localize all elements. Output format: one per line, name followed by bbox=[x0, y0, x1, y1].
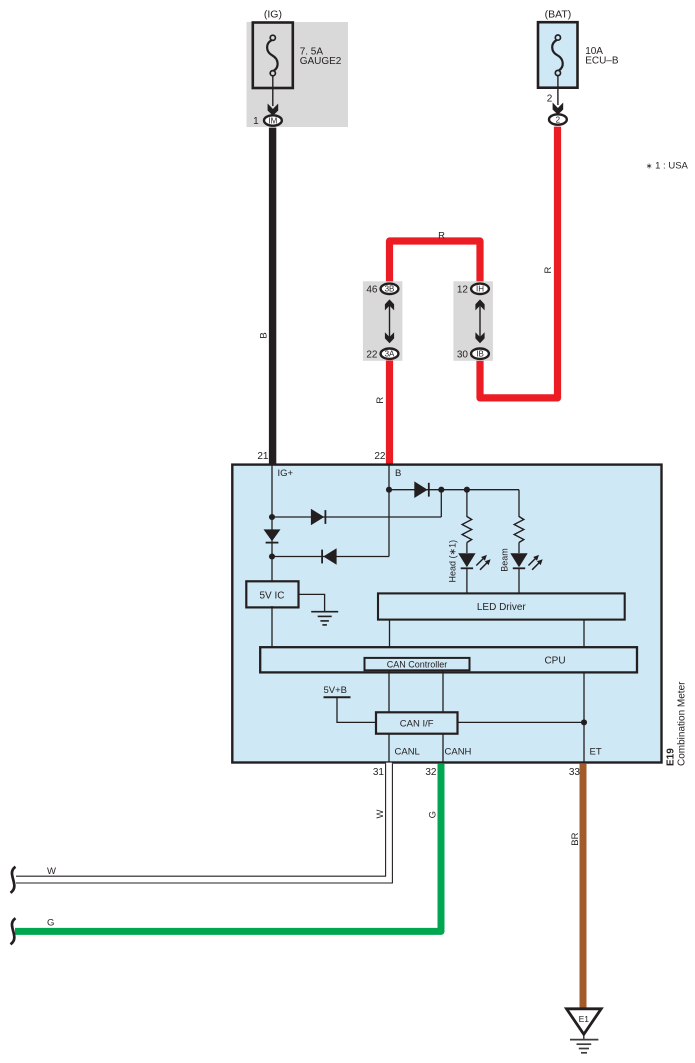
connector oval 2 bbox=[549, 114, 567, 124]
pin 12 label bbox=[457, 285, 469, 296]
connector oval 3A bbox=[381, 349, 399, 359]
wire resistor to LED bbox=[466, 543, 468, 554]
svg-text:B: B bbox=[395, 468, 401, 479]
node junction B line bbox=[386, 487, 392, 493]
note *1 : USA bbox=[646, 161, 689, 172]
value label 7.5A GAUGE2 bbox=[300, 47, 342, 68]
svg-text:5V+B: 5V+B bbox=[324, 685, 348, 696]
svg-text:IH: IH bbox=[476, 285, 484, 294]
ground E1 bbox=[567, 1009, 602, 1053]
svg-text:32: 32 bbox=[425, 767, 437, 778]
wire R (red) 3A to pin 22 of meter bbox=[386, 361, 393, 466]
svg-text:3B: 3B bbox=[385, 285, 395, 294]
CAN I/F box U6 bbox=[376, 712, 458, 733]
svg-text:21: 21 bbox=[257, 451, 269, 462]
diode D2 (IG+ line, pointing right) bbox=[311, 509, 326, 526]
pin 21 label bbox=[257, 451, 269, 462]
CPU box U4 bbox=[260, 647, 637, 672]
arrow into IM bbox=[268, 104, 279, 116]
wire beam branch vertical bbox=[518, 490, 520, 517]
break squiggle W bbox=[11, 867, 16, 893]
wire R (red) from connector 2 down, left, up to IB bbox=[480, 127, 558, 398]
wire 5VIC down to CPU bbox=[271, 606, 273, 649]
value label 10A ECU-B bbox=[585, 46, 619, 67]
pin 30 label bbox=[457, 349, 469, 360]
svg-text:ECU–B: ECU–B bbox=[585, 56, 619, 67]
pass-through gray box IH/IB bbox=[453, 281, 493, 361]
svg-text:(BAT): (BAT) bbox=[545, 9, 572, 21]
svg-text:12: 12 bbox=[457, 285, 469, 296]
svg-text:IB: IB bbox=[476, 350, 484, 359]
svg-text:5V IC: 5V IC bbox=[259, 590, 284, 601]
ground (5V IC) bbox=[311, 612, 338, 625]
wire BR (brown) pin33 bbox=[580, 764, 587, 1009]
LED Driver box U3 bbox=[378, 593, 625, 619]
resistor R1 (Head) bbox=[462, 517, 472, 543]
svg-text:BR: BR bbox=[570, 832, 581, 845]
svg-text:3A: 3A bbox=[385, 350, 395, 359]
diode D1 (B line, pointing right) bbox=[414, 481, 429, 498]
svg-text:IG+: IG+ bbox=[278, 468, 294, 479]
wire CANH inside bbox=[442, 734, 444, 763]
wire label R (rotated, right red wire) bbox=[543, 266, 554, 273]
pin 1 label bbox=[253, 116, 259, 127]
wire fuse to connector 2 bbox=[557, 76, 559, 105]
svg-text:R: R bbox=[543, 266, 554, 273]
label (IG) bbox=[264, 9, 282, 21]
LED Head bbox=[458, 553, 490, 570]
label Beam rotated bbox=[499, 548, 509, 572]
wire label W (rotated, vertical part) bbox=[375, 809, 386, 818]
svg-text:Head (∗1): Head (∗1) bbox=[448, 540, 458, 583]
node junction IG+ upper bbox=[269, 514, 275, 520]
svg-text:CAN I/F: CAN I/F bbox=[400, 719, 434, 730]
wire CANL inside bbox=[388, 734, 390, 763]
wire label W (horizontal part) bbox=[47, 866, 56, 877]
svg-text:R: R bbox=[375, 397, 386, 404]
pin 33 label bbox=[569, 767, 581, 778]
label Combination Meter (rotated) bbox=[677, 681, 688, 766]
diode D4 (lower line, pointing left) bbox=[322, 548, 337, 565]
fuse F2 10A ECU-B bbox=[538, 22, 578, 88]
connector oval IB bbox=[471, 349, 489, 359]
LED Beam bbox=[510, 553, 542, 570]
label (BAT) bbox=[545, 9, 572, 21]
wire CANctrl to CANIF right bbox=[442, 670, 444, 712]
diode D3 (IG+ vertical, pointing down) bbox=[264, 529, 281, 542]
wire IG+ vertical bbox=[271, 465, 273, 582]
break squiggle G bbox=[11, 918, 16, 944]
svg-text:G: G bbox=[428, 811, 439, 818]
wire label B (rotated) bbox=[259, 332, 270, 338]
svg-text:LED Driver: LED Driver bbox=[477, 602, 527, 613]
pass-through gray box 3B/3A bbox=[363, 281, 403, 361]
svg-text:CANH: CANH bbox=[445, 746, 472, 757]
wire diode-out vertical bbox=[440, 490, 442, 517]
node 5V+B bbox=[324, 685, 377, 723]
node ET label bbox=[590, 746, 602, 757]
wire CANIF to ET bbox=[458, 721, 585, 723]
wire W (white with outline) pin31 bbox=[16, 763, 389, 880]
wire 5VIC to ground bbox=[299, 594, 325, 611]
connector oval IM bbox=[264, 115, 282, 125]
svg-text:22: 22 bbox=[374, 451, 386, 462]
5V IC box U2 bbox=[246, 581, 298, 607]
svg-text:Beam: Beam bbox=[499, 548, 509, 572]
svg-text:2: 2 bbox=[547, 94, 553, 105]
svg-text:GAUGE2: GAUGE2 bbox=[300, 56, 342, 67]
svg-text:CPU: CPU bbox=[544, 656, 565, 667]
wire ET vertical bbox=[583, 672, 585, 763]
CAN Controller box U5 bbox=[365, 658, 470, 670]
wire R (red) bridge 3B to IH bbox=[390, 241, 481, 282]
wire fuse to IM bbox=[272, 76, 274, 106]
wire label G (horizontal part) bbox=[47, 918, 54, 929]
svg-text:IM: IM bbox=[268, 116, 277, 125]
junction block gray background (IG) bbox=[247, 22, 349, 127]
label E19 (rotated, bold) bbox=[666, 748, 677, 766]
svg-text:E19: E19 bbox=[666, 748, 677, 766]
node B bbox=[395, 468, 401, 479]
wire B top horizontal bbox=[389, 489, 519, 491]
svg-text:E1: E1 bbox=[579, 1014, 590, 1024]
node junction diode out bbox=[438, 487, 444, 493]
pin 22 label bbox=[374, 451, 386, 462]
wire G (green) pin32 bbox=[15, 764, 441, 932]
fuse F1 7.5A GAUGE2 bbox=[253, 23, 293, 89]
combination meter box E19 bbox=[232, 465, 661, 763]
wire lower horizontal bbox=[272, 556, 389, 558]
svg-text:46: 46 bbox=[366, 285, 378, 296]
svg-text:Combination Meter: Combination Meter bbox=[677, 681, 688, 766]
svg-text:30: 30 bbox=[457, 349, 469, 360]
svg-text:(IG): (IG) bbox=[264, 9, 282, 21]
node CANL label bbox=[395, 746, 420, 757]
wire driver to CPU left bbox=[389, 620, 391, 649]
svg-text:W: W bbox=[47, 866, 56, 877]
wire B (black) IM to pin 21 bbox=[269, 128, 276, 465]
connector oval IH bbox=[471, 284, 489, 294]
svg-text:R: R bbox=[438, 231, 445, 242]
wire label G (rotated, vertical part) bbox=[428, 811, 439, 818]
node junction head tap bbox=[464, 487, 470, 493]
node junction IG+ lower bbox=[269, 553, 275, 559]
svg-text:31: 31 bbox=[373, 767, 385, 778]
node IG+ bbox=[278, 468, 294, 479]
wire IG+ horizontal bbox=[272, 516, 441, 518]
wire driver to CPU right bbox=[583, 620, 585, 649]
svg-text:ET: ET bbox=[590, 746, 602, 757]
label Head (*1) rotated bbox=[448, 540, 458, 583]
svg-text:2: 2 bbox=[556, 115, 561, 124]
wire label R (bridge top) bbox=[438, 231, 445, 242]
wire LED to driver bbox=[466, 568, 468, 593]
arrow into connector 2 bbox=[553, 103, 564, 115]
resistor R2 (Beam) bbox=[514, 517, 524, 543]
wire label BR (rotated) bbox=[570, 832, 581, 845]
svg-text:CANL: CANL bbox=[395, 746, 420, 757]
pin 31 label bbox=[373, 767, 385, 778]
svg-text:B: B bbox=[259, 332, 270, 338]
svg-text:CAN Controller: CAN Controller bbox=[387, 660, 448, 670]
wire LED to driver bbox=[518, 568, 520, 593]
svg-text:∗ 1 : USA: ∗ 1 : USA bbox=[646, 161, 689, 172]
wire head branch vertical bbox=[466, 490, 468, 517]
double arrow 3B-3A bbox=[385, 299, 394, 343]
svg-text:22: 22 bbox=[366, 349, 378, 360]
svg-text:33: 33 bbox=[569, 767, 581, 778]
wire resistor to LED bbox=[518, 543, 520, 554]
pin 46 label bbox=[366, 285, 378, 296]
node CANH label bbox=[445, 746, 472, 757]
svg-text:1: 1 bbox=[253, 116, 259, 127]
connector oval 3B bbox=[381, 284, 399, 294]
pin 32 label bbox=[425, 767, 437, 778]
pin 2 label bbox=[547, 94, 553, 105]
double arrow IH-IB bbox=[475, 299, 484, 343]
pin 22 label (3A) bbox=[366, 349, 378, 360]
wire CANctrl to CANIF left bbox=[388, 670, 390, 712]
node junction ET bbox=[581, 719, 587, 725]
wire label R (rotated, 3A wire) bbox=[375, 397, 386, 404]
wire B vertical bbox=[388, 465, 390, 557]
svg-text:G: G bbox=[47, 918, 54, 929]
svg-text:W: W bbox=[375, 809, 386, 818]
